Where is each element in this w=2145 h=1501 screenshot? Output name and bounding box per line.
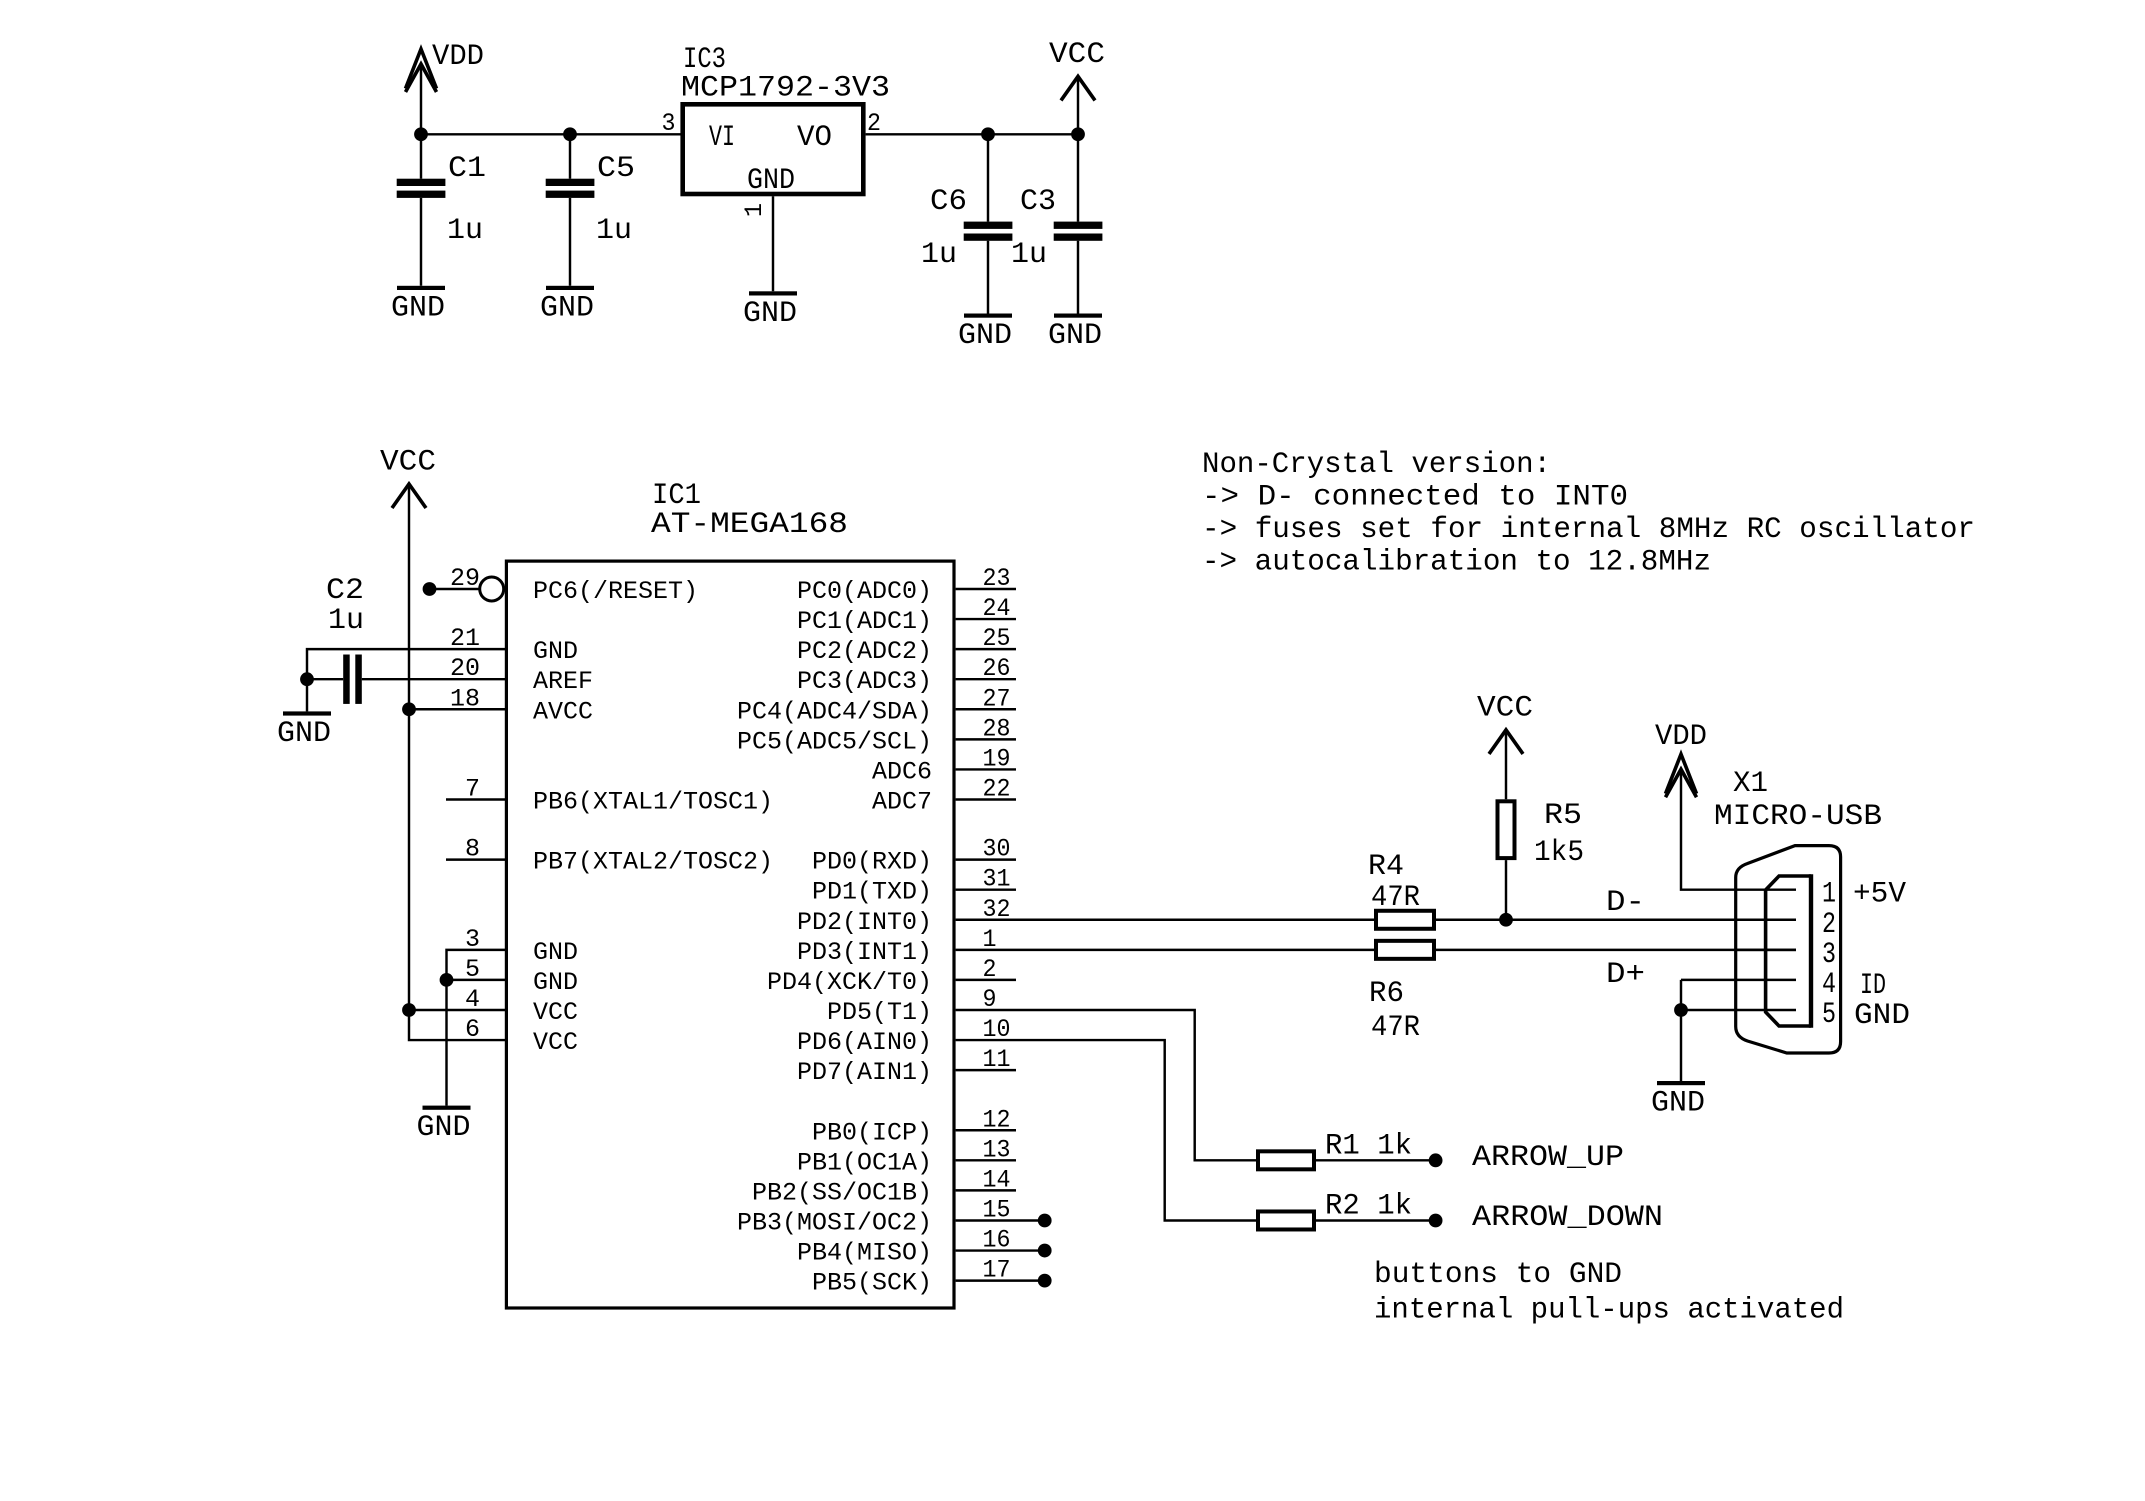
svg-text:VCC: VCC [533,998,578,1027]
capacitor C3 [1011,134,1102,313]
wire IC3 pin 2 output rail [866,133,1078,135]
svg-text:PD3(INT1): PD3(INT1) [797,938,932,967]
resistor R4 47R [1368,850,1434,929]
svg-text:3: 3 [465,925,480,954]
IC1 pin 26 PC3(ADC3) [797,654,1016,696]
power symbol VCC (top right) [1049,38,1105,101]
IC1 pin 27 PC4(ADC4/SDA) [737,684,1016,726]
junction VCC pin 4 [402,1003,416,1017]
IC1 pin 32 PD2(INT0) [797,895,1011,937]
ground below C1 [391,286,445,326]
svg-text:1: 1 [1822,878,1836,912]
IC1 pin 28 PC5(ADC5/SCL) [737,714,1016,756]
svg-text:PD1(TXD): PD1(TXD) [812,878,932,907]
svg-text:GND: GND [417,1111,471,1145]
wire to IC1 ground [445,980,447,1106]
svg-text:22: 22 [983,774,1011,803]
wire R1 to ARROW_UP [1316,1159,1436,1161]
power symbol VCC (above IC1) [380,446,436,509]
svg-text:1u: 1u [921,238,957,272]
svg-text:28: 28 [983,714,1011,743]
resistor R1 1k [1258,1130,1412,1170]
ground below C3 [1048,314,1102,354]
svg-text:C1: C1 [448,152,486,186]
wire R2 to ARROW_DOWN [1316,1219,1436,1221]
IC1 pin 20 AREF [307,654,593,696]
svg-text:PC1(ADC1): PC1(ADC1) [797,607,932,636]
svg-text:29: 29 [450,564,480,593]
svg-text:C6: C6 [930,185,967,219]
junction C5 [563,127,577,141]
ground below C6 [958,314,1012,354]
svg-text:PC0(ADC0): PC0(ADC0) [797,577,932,606]
svg-text:PB2(SS/OC1B): PB2(SS/OC1B) [752,1178,932,1207]
svg-text:GND: GND [958,319,1012,353]
svg-text:PD5(T1): PD5(T1) [827,998,932,1027]
IC1 pin 3 GND [447,925,579,980]
IC1 pin 12 PB0(ICP) [812,1105,1016,1147]
svg-text:D-: D- [1606,886,1645,920]
svg-text:15: 15 [983,1195,1011,1224]
wire VDD to input rail [420,64,422,134]
IC1 pin 25 PC2(ADC2) [797,624,1016,666]
IC1 pin 19 ADC6 [872,744,1016,786]
voltage regulator IC3 MCP1792-3V3 [681,43,890,198]
svg-text:PB3(MOSI/OC2): PB3(MOSI/OC2) [737,1208,932,1237]
IC1 pin 22 ADC7 [872,774,1016,816]
ground below USB [1651,1081,1705,1121]
svg-text:VI: VI [709,121,735,155]
svg-text:21: 21 [450,624,480,653]
svg-text:12: 12 [983,1105,1011,1134]
svg-text:GND: GND [1854,999,1910,1033]
svg-text:PD4(XCK/T0): PD4(XCK/T0) [767,968,932,997]
ground below IC1 [417,1106,471,1146]
wire VCC to R5 [1505,730,1507,799]
X1 pin 5 [1681,998,1836,1032]
svg-text:PC3(ADC3): PC3(ADC3) [797,667,932,696]
svg-text:R4: R4 [1368,850,1404,884]
note: buttons text [1374,1258,1844,1328]
svg-text:GND: GND [533,938,578,967]
svg-text:GND: GND [533,637,578,666]
svg-text:GND: GND [540,291,594,325]
svg-text:ARROW_DOWN: ARROW_DOWN [1472,1201,1663,1235]
IC1 pin 7 PB6 [446,774,773,816]
power symbol VCC (above R5) [1477,691,1533,754]
IC1 pin 13 PB1(OC1A) [797,1135,1016,1177]
svg-text:24: 24 [983,594,1011,623]
IC1 pin 6 VCC [465,1015,578,1057]
svg-text:19: 19 [983,744,1011,773]
svg-text:R5: R5 [1544,799,1582,833]
svg-text:26: 26 [983,654,1011,683]
svg-text:VCC: VCC [380,446,436,480]
svg-text:R2 1k: R2 1k [1325,1190,1412,1224]
resistor R5 1k5 [1498,799,1585,870]
microcontroller IC1 AT-MEGA168 [506,479,954,1308]
wire PD6 to R2 [956,1040,1256,1220]
IC1 pin 14 PB2(SS/OC1B) [752,1165,1016,1207]
IC1 pin 4 VCC [409,985,578,1027]
junction C1/VDD [414,127,428,141]
svg-text:5: 5 [465,955,480,984]
wire IC3 pin 1 to ground [772,196,774,291]
IC1 pin 11 PD7(AIN1) [797,1045,1016,1087]
wire USB ID/GND to ground [1680,980,1682,1081]
svg-text:PC5(ADC5/SCL): PC5(ADC5/SCL) [737,727,932,756]
capacitor C6 [921,134,1012,313]
svg-text:1u: 1u [447,214,483,248]
wire PD5 to R1 [956,1010,1256,1160]
junction C6 [981,127,995,141]
svg-text:ADC6: ADC6 [872,757,932,786]
wire input rail to IC3 pin 3 [421,133,681,135]
svg-text:47R: 47R [1371,1011,1420,1045]
wire to VCC symbol [1077,76,1079,134]
svg-text:R1 1k: R1 1k [1325,1130,1412,1164]
svg-text:+5V: +5V [1853,878,1906,912]
svg-text:Non-Crystal version:: Non-Crystal version: [1202,448,1551,482]
svg-text:31: 31 [983,865,1011,894]
svg-text:2: 2 [1822,908,1836,942]
svg-text:GND: GND [277,717,331,751]
svg-text:27: 27 [983,684,1011,713]
svg-text:13: 13 [983,1135,1011,1164]
svg-text:6: 6 [465,1015,480,1044]
power symbol VDD (above USB) [1655,720,1707,797]
svg-text:7: 7 [465,774,480,803]
IC1 pin 8 PB7 [446,835,773,877]
svg-text:PD6(AIN0): PD6(AIN0) [797,1028,932,1057]
IC1 pin 21 GND [307,624,578,679]
junction C3/VCC [1071,127,1085,141]
IC1 pin 16 PB4(MISO) [797,1226,1052,1268]
wire VCC rail to IC1 pin 6 [409,484,506,1040]
svg-text:1u: 1u [596,214,632,248]
svg-text:PC2(ADC2): PC2(ADC2) [797,637,932,666]
IC1 pin 5 GND [447,955,579,997]
IC1 pin 15 PB3(MOSI/OC2) [737,1195,1052,1237]
svg-text:PB5(SCK): PB5(SCK) [812,1269,932,1298]
capacitor C1 [397,134,486,285]
IC1 pin 24 PC1(ADC1) [797,594,1016,636]
svg-text:1u: 1u [1011,238,1047,272]
svg-text:-> autocalibration to 12.8MHz: -> autocalibration to 12.8MHz [1202,546,1711,580]
svg-text:GND: GND [391,291,445,325]
svg-text:14: 14 [983,1165,1011,1194]
svg-text:18: 18 [450,684,480,713]
wire PD3/INT1 to R6 [956,949,1374,951]
svg-text:PB1(OC1A): PB1(OC1A) [797,1148,932,1177]
IC1 pin 23 PC0(ADC0) [797,564,1016,606]
svg-text:GND: GND [1651,1087,1705,1121]
svg-text:AREF: AREF [533,667,593,696]
IC1 pin 2 PD4(XCK/T0) [767,955,1016,997]
svg-text:PB4(MISO): PB4(MISO) [797,1239,932,1268]
svg-text:PB7(XTAL2/TOSC2): PB7(XTAL2/TOSC2) [533,848,773,877]
svg-text:internal pull-ups activated: internal pull-ups activated [1374,1294,1844,1328]
svg-text:C5: C5 [597,152,635,186]
wire R5 to D- [1505,860,1507,920]
wire C2 to ground [306,679,308,711]
svg-text:3: 3 [1822,938,1836,972]
svg-text:20: 20 [450,654,480,683]
IC1 pin 10 PD6(AIN0) [797,1015,1011,1057]
svg-text:PD2(INT0): PD2(INT0) [797,908,932,937]
IC1 pin 17 PB5(SCK) [812,1256,1052,1298]
svg-text:VDD: VDD [432,40,484,74]
capacitor C5 [546,134,635,285]
resistor R6 47R [1369,941,1434,1045]
svg-text:11: 11 [983,1045,1011,1074]
wire D+ to USB pin 3 [1436,949,1796,951]
svg-text:23: 23 [983,564,1011,593]
svg-text:3: 3 [662,109,676,138]
X1 pin 2 [1736,908,1836,942]
svg-text:47R: 47R [1371,881,1420,915]
svg-text:ADC7: ADC7 [872,787,932,816]
svg-text:GND: GND [1048,319,1102,353]
svg-text:1u: 1u [328,604,364,638]
IC1 pin 29 PC6(/RESET) [423,564,698,606]
svg-text:GND: GND [747,164,795,198]
svg-text:ARROW_UP: ARROW_UP [1472,1141,1624,1175]
X1 pin names [1853,878,1910,1033]
wire VDD to USB pin 1 [1681,769,1796,890]
svg-text:1: 1 [740,203,769,217]
power symbol VDD (top left) [406,40,485,92]
svg-text:PD7(AIN1): PD7(AIN1) [797,1058,932,1087]
junction USB GND [1674,1003,1688,1017]
IC1 pin 31 PD1(TXD) [812,865,1016,907]
svg-text:-> D- connected to INT0: -> D- connected to INT0 [1202,481,1628,515]
svg-text:AT-MEGA168: AT-MEGA168 [651,508,848,542]
svg-text:5: 5 [1822,998,1836,1032]
svg-text:VCC: VCC [1477,691,1533,725]
svg-text:AVCC: AVCC [533,697,593,726]
svg-text:PB0(ICP): PB0(ICP) [812,1118,932,1147]
svg-text:17: 17 [983,1256,1011,1285]
svg-text:PD0(RXD): PD0(RXD) [812,848,932,877]
ground below C5 [540,286,594,326]
svg-text:MICRO-USB: MICRO-USB [1714,800,1882,834]
svg-text:8: 8 [465,835,480,864]
svg-text:PC4(ADC4/SDA): PC4(ADC4/SDA) [737,697,932,726]
junction C2/GND [300,672,314,686]
svg-text:C3: C3 [1020,185,1056,219]
wire D- to USB pin 2 [1436,919,1796,921]
svg-text:PB6(XTAL1/TOSC1): PB6(XTAL1/TOSC1) [533,787,773,816]
X1 pin 4 [1681,968,1836,1002]
svg-text:16: 16 [983,1226,1011,1255]
svg-text:D+: D+ [1606,958,1645,992]
svg-text:4: 4 [1822,968,1836,1002]
ground below IC3 [743,291,797,331]
svg-text:X1: X1 [1733,767,1768,801]
junction AVCC [402,702,416,716]
resistor R2 1k [1258,1190,1412,1230]
svg-text:VCC: VCC [1049,38,1105,72]
X1 pin 1 [1822,878,1836,912]
svg-text:VCC: VCC [533,1028,578,1057]
svg-text:C2: C2 [326,574,364,608]
svg-text:MCP1792-3V3: MCP1792-3V3 [681,72,890,106]
svg-text:2: 2 [983,955,997,984]
svg-text:25: 25 [983,624,1011,653]
IC1 pin 18 AVCC [409,684,593,726]
svg-text:VO: VO [797,121,832,155]
IC1 pin 30 PD0(RXD) [812,835,1016,877]
svg-text:ID: ID [1860,969,1886,1003]
svg-text:buttons to GND: buttons to GND [1374,1258,1622,1292]
node ARROW_UP [1429,1153,1443,1167]
svg-text:PC6(/RESET): PC6(/RESET) [533,577,698,606]
node ARROW_DOWN [1429,1214,1443,1228]
svg-text:1k5: 1k5 [1534,836,1584,870]
capacitor C2 [326,574,364,704]
svg-text:GND: GND [743,297,797,331]
ground below C2 [277,711,331,751]
svg-text:GND: GND [533,968,578,997]
svg-text:4: 4 [465,985,480,1014]
junction GND pins [440,973,454,987]
svg-text:R6: R6 [1369,977,1404,1011]
connector X1 MICRO-USB [1714,767,1882,1053]
svg-text:VDD: VDD [1655,720,1707,754]
svg-text:-> fuses set for internal 8MHz: -> fuses set for internal 8MHz RC oscill… [1202,513,1975,547]
IC1 pin 1 PD3(INT1) [797,925,997,967]
svg-text:30: 30 [983,835,1011,864]
junction R5/D- [1499,913,1513,927]
note: non-crystal version text [1202,448,1975,580]
X1 pin 3 [1736,938,1836,972]
wire PD2/INT0 to R4 [956,919,1374,921]
IC1 pin 9 PD5(T1) [827,985,997,1027]
